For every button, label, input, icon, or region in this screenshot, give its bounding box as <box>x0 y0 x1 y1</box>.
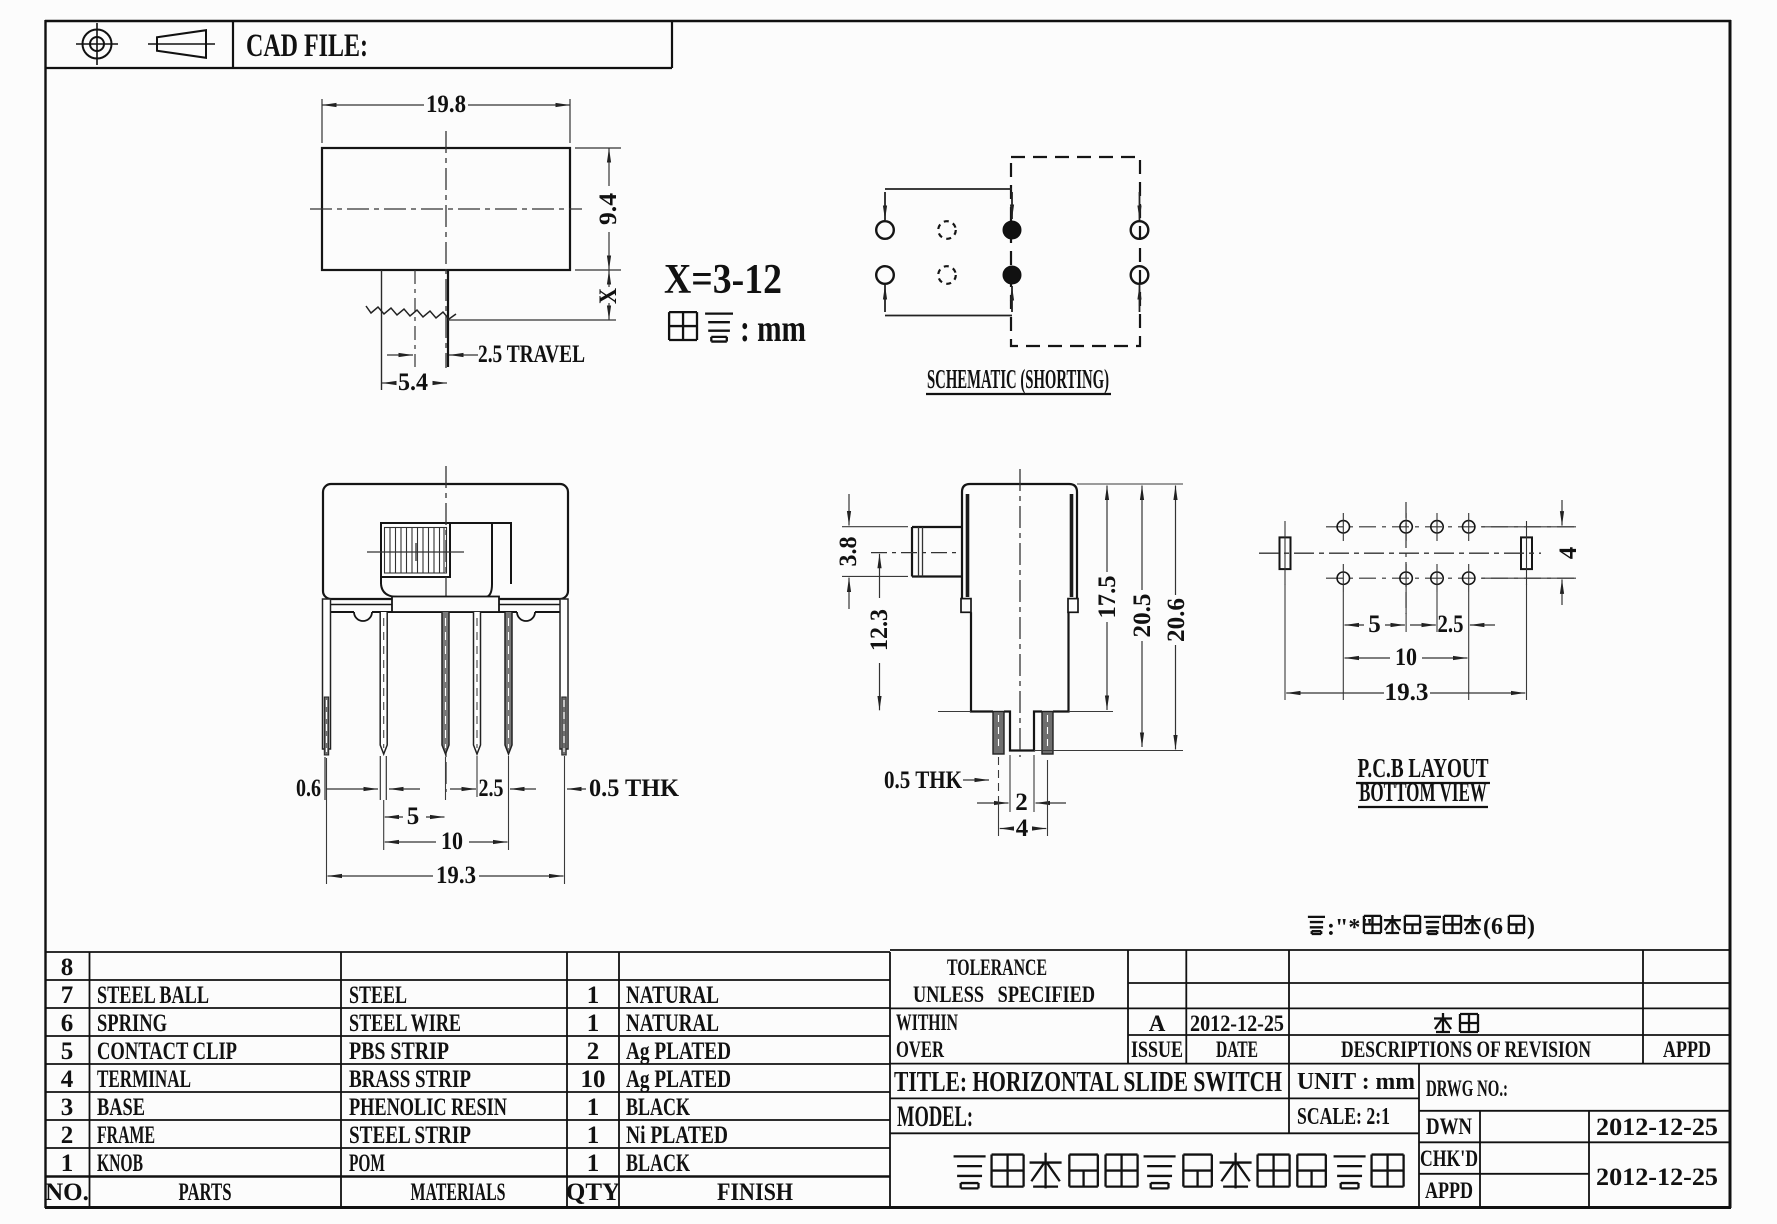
dim 3.8 <box>848 494 850 609</box>
svg-text:20.6: 20.6 <box>1163 598 1190 642</box>
svg-text:BLACK: BLACK <box>626 1094 690 1121</box>
svg-text:1: 1 <box>61 1150 74 1177</box>
svg-text:5: 5 <box>407 803 420 830</box>
svg-text:3.8: 3.8 <box>835 537 862 567</box>
svg-text:1: 1 <box>587 1094 600 1121</box>
pcb pads row 2 <box>1337 572 1475 584</box>
front body <box>323 484 568 599</box>
pcb slot left <box>1280 537 1291 569</box>
dim 2.5 (pins) <box>450 788 536 790</box>
svg-text:KNOB: KNOB <box>97 1150 143 1177</box>
front knob window <box>381 523 511 597</box>
dim 0.5 THK (side) <box>963 779 989 781</box>
svg-text:ISSUE: ISSUE <box>1131 1037 1183 1062</box>
knob stem centerline <box>414 270 416 367</box>
svg-text:7: 7 <box>61 982 74 1009</box>
svg-text:TITLE: HORIZONTAL SLIDE SWITCH: TITLE: HORIZONTAL SLIDE SWITCH <box>894 1066 1282 1098</box>
pcb dim 5 <box>1345 624 1405 626</box>
svg-text:19.8: 19.8 <box>426 91 466 118</box>
frame bottom tabs <box>961 599 971 613</box>
svg-text:STEEL STRIP: STEEL STRIP <box>349 1122 471 1149</box>
svg-text:0.5 THK: 0.5 THK <box>884 767 962 794</box>
svg-text:APPD: APPD <box>1663 1037 1711 1062</box>
svg-text:CAD FILE:: CAD FILE: <box>246 28 368 64</box>
svg-text:5: 5 <box>1368 611 1381 638</box>
schematic terminal circles row 2 <box>876 266 894 284</box>
svg-text:WITHIN: WITHIN <box>896 1010 958 1035</box>
svg-text:4: 4 <box>1016 815 1029 842</box>
svg-text:2.5: 2.5 <box>479 775 504 802</box>
svg-text:4: 4 <box>1555 546 1582 559</box>
svg-text:2.5: 2.5 <box>1438 611 1464 638</box>
projection symbol: cone <box>148 30 215 58</box>
svg-text::"*": :"*" <box>1327 915 1374 941</box>
svg-text:DRWG NO.:: DRWG NO.: <box>1426 1076 1508 1101</box>
pcb slot vertical ticks <box>1285 521 1527 585</box>
svg-text:0.5 THK: 0.5 THK <box>589 775 680 802</box>
pcb slot right <box>1521 537 1532 569</box>
top view horizontal centerline <box>310 208 582 210</box>
schematic bottom link wire <box>885 285 1012 316</box>
svg-text:12.3: 12.3 <box>866 609 893 651</box>
svg-text:FRAME: FRAME <box>97 1122 155 1149</box>
pcb pads row 1 <box>1337 521 1475 533</box>
terminal pin 3 <box>474 612 481 754</box>
svg-text:Ag PLATED: Ag PLATED <box>626 1066 731 1093</box>
dim X <box>448 270 616 320</box>
svg-text:NATURAL: NATURAL <box>626 982 719 1009</box>
svg-text:A: A <box>1149 1011 1166 1036</box>
svg-text:TERMINAL: TERMINAL <box>97 1066 191 1093</box>
side vertical centerline <box>1019 469 1021 757</box>
pcb pad crosses <box>1343 513 1468 592</box>
svg-text:POM: POM <box>349 1150 385 1177</box>
side ext lines <box>842 484 1183 751</box>
dim 19.3 <box>328 875 564 877</box>
svg-text:10: 10 <box>441 828 463 855</box>
front left mounting leg <box>323 599 331 755</box>
svg-text:2012-12-25: 2012-12-25 <box>1190 1011 1284 1036</box>
svg-text:DESCRIPTIONS OF REVISION: DESCRIPTIONS OF REVISION <box>1341 1037 1591 1062</box>
svg-text:BRASS STRIP: BRASS STRIP <box>349 1066 471 1093</box>
svg-text:APPD: APPD <box>1425 1178 1473 1203</box>
svg-text:1: 1 <box>587 1010 600 1037</box>
svg-text:UNLESS SPECIFIED: UNLESS SPECIFIED <box>913 982 1095 1007</box>
side pin 1 <box>993 712 1004 755</box>
svg-text:1: 1 <box>587 982 600 1009</box>
parts table grid <box>46 952 890 1208</box>
svg-text:2.5 TRAVEL: 2.5 TRAVEL <box>478 341 585 368</box>
svg-text:STEEL BALL: STEEL BALL <box>97 982 209 1009</box>
svg-text:Ni PLATED: Ni PLATED <box>626 1122 728 1149</box>
svg-text:19.3: 19.3 <box>436 862 476 889</box>
knob center cross <box>367 543 464 561</box>
terminal pin 2 <box>442 612 449 754</box>
svg-text:PARTS: PARTS <box>179 1179 232 1206</box>
side pin 2 <box>1042 712 1053 755</box>
key-dimension note (CJK) <box>1308 914 1535 941</box>
svg-text:10: 10 <box>1395 644 1417 671</box>
svg-text:CHK'D: CHK'D <box>1420 1146 1478 1171</box>
dim 0.5 THK <box>567 788 586 790</box>
svg-text:TOLERANCE: TOLERANCE <box>947 955 1047 980</box>
svg-text:SCHEMATIC (SHORTING): SCHEMATIC (SHORTING) <box>927 364 1109 394</box>
front knob (hatched) <box>381 523 450 577</box>
dim 9.4 <box>575 148 621 270</box>
dim 19.8 <box>322 99 570 143</box>
parts table texts <box>45 954 793 1206</box>
svg-text:MATERIALS: MATERIALS <box>411 1179 506 1206</box>
stem centerline <box>871 552 959 554</box>
pcb dim 4 <box>1482 527 1576 578</box>
pcb dim 10 <box>1345 657 1468 659</box>
svg-text:PHENOLIC RESIN: PHENOLIC RESIN <box>349 1094 507 1121</box>
pcb main horizontal centerline <box>1259 552 1541 554</box>
schematic right arrows <box>1139 192 1141 312</box>
pcb ext lines <box>1285 584 1527 700</box>
svg-text:FINISH: FINISH <box>717 1179 793 1206</box>
svg-text:5.4: 5.4 <box>398 369 428 396</box>
note unit mm (CJK) <box>669 312 697 340</box>
svg-text:10: 10 <box>581 1066 606 1093</box>
frame steel edges <box>966 494 970 597</box>
svg-text:2: 2 <box>61 1122 74 1149</box>
svg-text:: mm: : mm <box>740 308 806 350</box>
terminal pin 4 <box>505 612 512 754</box>
pcb dim 19.3 <box>1286 692 1525 694</box>
pcb dim 2.5 <box>1410 624 1495 626</box>
svg-text:SPRING: SPRING <box>97 1010 167 1037</box>
svg-text:X: X <box>595 288 622 304</box>
revision row <box>1434 1013 1452 1033</box>
svg-text:20.5: 20.5 <box>1129 594 1156 638</box>
svg-text:4: 4 <box>61 1066 74 1093</box>
svg-text:DATE: DATE <box>1216 1037 1258 1062</box>
front vertical centerline <box>445 466 447 792</box>
svg-text:3: 3 <box>61 1094 74 1121</box>
svg-text:2: 2 <box>1015 789 1028 816</box>
dim 5.4 <box>382 382 447 384</box>
dim 5 <box>385 816 445 818</box>
svg-text:(6: (6 <box>1483 914 1503 940</box>
svg-text:5: 5 <box>61 1038 74 1065</box>
svg-text:SCALE: 2:1: SCALE: 2:1 <box>1297 1104 1390 1130</box>
pcb row centerlines <box>1326 526 1576 528</box>
terminal pin 1 <box>380 612 387 754</box>
side knob stem <box>912 527 962 577</box>
dim 2 (side) <box>1010 755 1034 812</box>
svg-text:BLACK: BLACK <box>626 1150 690 1177</box>
svg-text:0.6: 0.6 <box>296 775 321 802</box>
svg-text:2: 2 <box>587 1038 600 1065</box>
svg-text:): ) <box>1527 914 1535 940</box>
svg-text:QTY: QTY <box>566 1179 620 1206</box>
svg-text:BOTTOM VIEW: BOTTOM VIEW <box>1359 777 1487 807</box>
svg-text:17.5: 17.5 <box>1094 576 1121 619</box>
side body upper (frame) <box>962 484 1077 599</box>
title block grid <box>890 950 1731 1207</box>
svg-text:DWN: DWN <box>1426 1114 1472 1139</box>
front flange <box>327 599 564 621</box>
side base body <box>971 612 1069 750</box>
dim 0.6 <box>325 756 420 800</box>
svg-text:NO.: NO. <box>45 1179 89 1206</box>
dim 4 (side) <box>999 760 1048 836</box>
svg-text:STEEL: STEEL <box>349 982 407 1009</box>
schematic terminal circles row 1 <box>876 221 894 239</box>
svg-text:PBS STRIP: PBS STRIP <box>349 1038 449 1065</box>
knob stem side walls <box>381 270 383 390</box>
dim 2.5 travel arrows <box>387 354 478 356</box>
company name (CJK) <box>954 1153 1404 1189</box>
svg-text:9.4: 9.4 <box>595 192 622 225</box>
svg-text:X=3-12: X=3-12 <box>664 257 782 303</box>
svg-text:2012-12-25: 2012-12-25 <box>1596 1114 1718 1141</box>
svg-text:6: 6 <box>61 1010 74 1037</box>
top view body rect <box>322 148 570 270</box>
svg-text:MODEL:: MODEL: <box>897 1100 973 1133</box>
svg-text:1: 1 <box>587 1122 600 1149</box>
projection symbol: target circle <box>76 23 118 65</box>
svg-text:2012-12-25: 2012-12-25 <box>1596 1164 1718 1191</box>
dim 12.3 <box>879 554 881 711</box>
dim 17.5 <box>1106 486 1108 711</box>
svg-text:STEEL WIRE: STEEL WIRE <box>349 1010 461 1037</box>
front right mounting leg <box>560 599 568 755</box>
svg-text:8: 8 <box>61 954 74 981</box>
stem break zigzag <box>366 306 456 319</box>
svg-text:1: 1 <box>587 1150 600 1177</box>
dim 20.5 <box>1141 486 1143 748</box>
schematic dashed housing <box>1011 157 1140 346</box>
svg-text:BASE: BASE <box>97 1094 145 1121</box>
flange center tab <box>392 597 499 613</box>
svg-text:NATURAL: NATURAL <box>626 1010 719 1037</box>
pcb vertical centerline <box>1405 502 1407 614</box>
front dim extension lines <box>327 756 565 884</box>
svg-text:Ag PLATED: Ag PLATED <box>626 1038 731 1065</box>
top view vertical centerline <box>445 131 447 368</box>
schematic top link wire <box>885 189 1012 220</box>
svg-text:CONTACT CLIP: CONTACT CLIP <box>97 1038 237 1065</box>
svg-text:UNIT : mm: UNIT : mm <box>1297 1069 1415 1095</box>
header box <box>45 21 672 68</box>
svg-text:19.3: 19.3 <box>1385 679 1429 706</box>
dim 20.6 <box>1175 486 1177 750</box>
dim 10 <box>385 841 508 843</box>
svg-text:OVER: OVER <box>896 1037 944 1062</box>
